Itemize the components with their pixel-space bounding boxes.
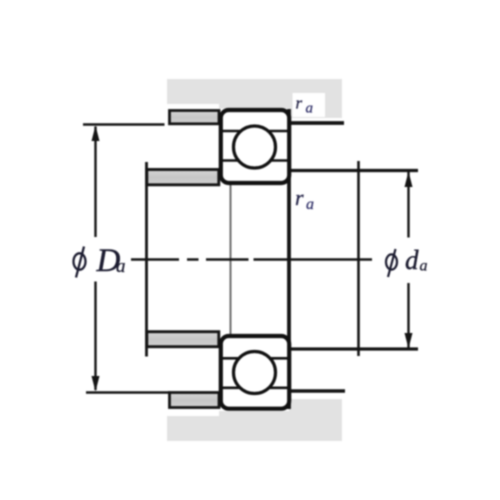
- svg-text:r: r: [296, 94, 303, 113]
- svg-text:r: r: [295, 185, 304, 210]
- svg-text:a: a: [116, 256, 126, 277]
- svg-text:a: a: [420, 258, 428, 275]
- svg-text:a: a: [306, 101, 314, 117]
- svg-text:d: d: [405, 245, 419, 275]
- svg-text:a: a: [306, 196, 314, 213]
